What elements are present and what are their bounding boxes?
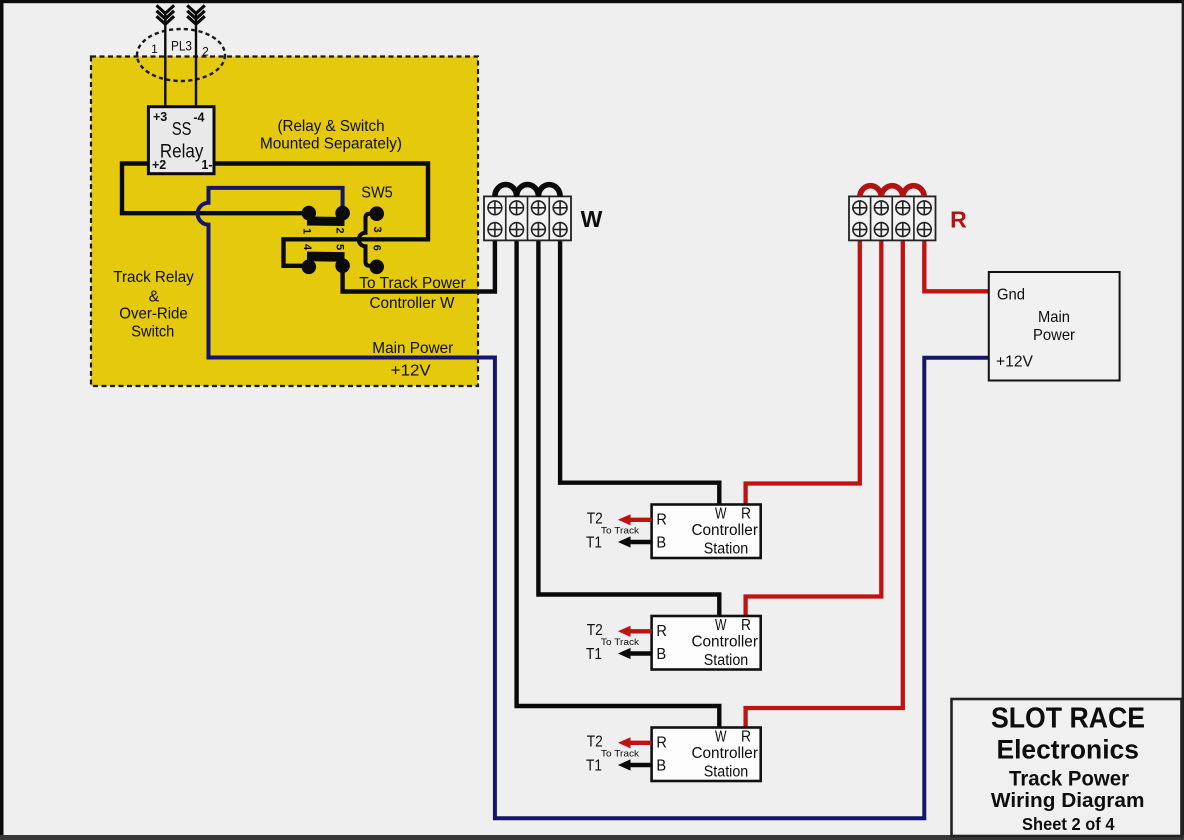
svg-text:+2: +2: [152, 158, 166, 172]
svg-text:Wiring Diagram: Wiring Diagram: [991, 789, 1145, 812]
svg-text:Controller W: Controller W: [370, 295, 456, 312]
svg-text:Controller: Controller: [691, 522, 758, 539]
svg-text:Power: Power: [1033, 327, 1076, 344]
svg-text:2: 2: [334, 227, 346, 233]
svg-text:+12V: +12V: [996, 353, 1033, 370]
svg-text:R: R: [950, 207, 967, 233]
svg-text:2: 2: [202, 45, 209, 59]
svg-text:Gnd: Gnd: [997, 287, 1025, 304]
svg-text:SS: SS: [172, 119, 192, 139]
svg-text:+12V: +12V: [391, 363, 431, 380]
svg-text:T1: T1: [586, 534, 602, 551]
svg-text:1: 1: [151, 42, 158, 56]
svg-text:W: W: [715, 505, 727, 522]
svg-text:Track Relay: Track Relay: [113, 269, 194, 286]
svg-text:Main Power: Main Power: [372, 340, 454, 357]
svg-text:W: W: [581, 206, 603, 232]
svg-text:-4: -4: [193, 110, 204, 124]
svg-text:To Track: To Track: [601, 525, 639, 536]
svg-text:R: R: [656, 511, 667, 528]
svg-text:Station: Station: [704, 541, 749, 558]
svg-text:(Relay & Switch: (Relay & Switch: [278, 118, 385, 135]
svg-text:PL3: PL3: [171, 39, 192, 54]
svg-text:Mounted Separately): Mounted Separately): [260, 136, 402, 153]
svg-text:Switch: Switch: [131, 324, 174, 341]
svg-text:Electronics: Electronics: [996, 734, 1139, 764]
svg-text:Sheet 2 of 4: Sheet 2 of 4: [1022, 814, 1115, 834]
svg-text:6: 6: [371, 245, 383, 251]
svg-text:Over-Ride: Over-Ride: [119, 306, 188, 323]
svg-text:1: 1: [301, 228, 313, 234]
svg-text:B: B: [656, 534, 666, 551]
svg-text:+3: +3: [153, 110, 167, 124]
svg-text:3: 3: [371, 226, 383, 232]
svg-text:4: 4: [301, 244, 313, 251]
svg-text:Relay: Relay: [160, 142, 204, 163]
svg-text:5: 5: [334, 244, 346, 250]
svg-text:R: R: [741, 505, 751, 522]
svg-text:Track Power: Track Power: [1009, 767, 1129, 790]
svg-text:1-: 1-: [201, 158, 212, 172]
svg-text:SW5: SW5: [361, 185, 393, 202]
svg-text:&: &: [149, 289, 160, 306]
svg-text:Main: Main: [1038, 309, 1070, 326]
svg-text:To Track Power: To Track Power: [359, 275, 466, 292]
svg-text:SLOT RACE: SLOT RACE: [991, 702, 1145, 734]
